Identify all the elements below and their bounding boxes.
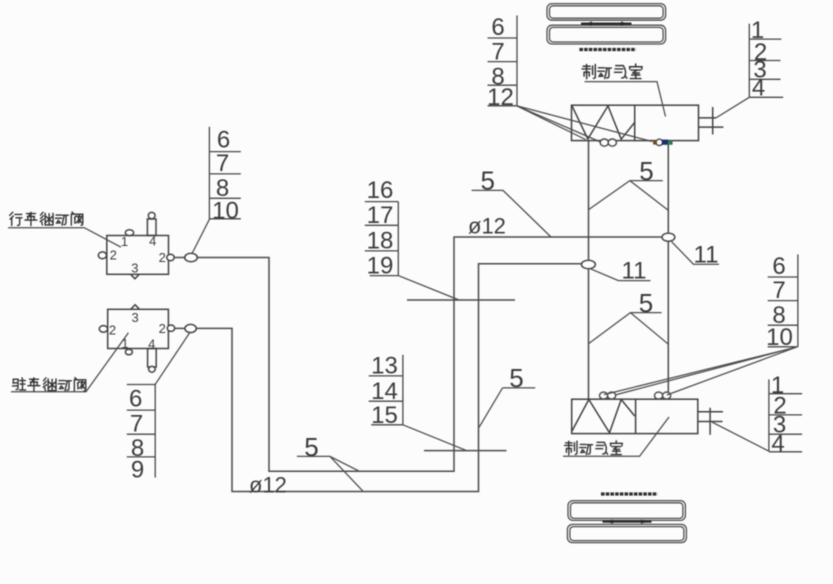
- svg-text:ø12: ø12: [249, 472, 287, 497]
- svg-text:5: 5: [639, 156, 653, 186]
- svg-text:7: 7: [491, 39, 504, 66]
- svg-text:13: 13: [371, 353, 398, 380]
- svg-text:6: 6: [129, 386, 142, 413]
- svg-text:7: 7: [130, 410, 143, 437]
- svg-text:2: 2: [159, 321, 166, 336]
- svg-text:2: 2: [110, 247, 117, 262]
- svg-text:17: 17: [367, 202, 394, 229]
- svg-text:3: 3: [131, 310, 138, 325]
- svg-text:7: 7: [216, 150, 229, 177]
- svg-text:16: 16: [367, 177, 394, 204]
- svg-text:4: 4: [752, 75, 765, 102]
- svg-text:5: 5: [304, 432, 318, 462]
- svg-text:18: 18: [367, 228, 394, 255]
- svg-text:4: 4: [149, 233, 156, 248]
- svg-text:19: 19: [367, 253, 394, 280]
- svg-text:11: 11: [694, 241, 719, 268]
- svg-text:10: 10: [212, 197, 239, 224]
- svg-text:1: 1: [121, 234, 128, 249]
- svg-text:4: 4: [148, 337, 155, 352]
- svg-text:3: 3: [131, 261, 138, 276]
- svg-text:5: 5: [480, 166, 494, 196]
- svg-text:5: 5: [509, 363, 523, 393]
- svg-text:6: 6: [772, 253, 785, 280]
- svg-text:2: 2: [159, 250, 166, 265]
- svg-text:1: 1: [121, 336, 128, 351]
- svg-text:5: 5: [639, 288, 653, 318]
- svg-text:14: 14: [371, 378, 398, 405]
- svg-text:15: 15: [371, 402, 398, 429]
- svg-text:9: 9: [131, 456, 144, 483]
- svg-text:10: 10: [766, 324, 793, 351]
- svg-text:4: 4: [771, 430, 784, 457]
- svg-text:ø12: ø12: [468, 214, 506, 239]
- svg-text:11: 11: [622, 258, 647, 285]
- svg-text:7: 7: [772, 277, 785, 304]
- svg-text:2: 2: [109, 322, 116, 337]
- svg-text:6: 6: [491, 14, 504, 41]
- svg-text:12: 12: [487, 84, 514, 111]
